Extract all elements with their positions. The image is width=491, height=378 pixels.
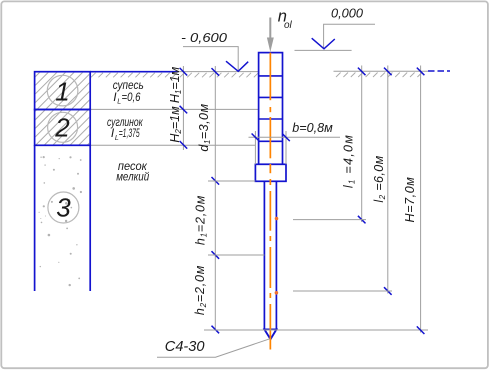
svg-text:С4-30: С4-30: [165, 338, 205, 355]
soil layer 1 hatching: [0, 58, 174, 150]
b dimension line: [249, 136, 341, 138]
datum -0,600 elbow: [183, 47, 238, 71]
circle label 3: [48, 192, 79, 223]
ground line blue dashes: [428, 70, 450, 72]
pile collar: [255, 164, 286, 181]
extension line h1/h2: [208, 254, 264, 256]
pile column segment lines: [259, 75, 283, 77]
b dimension extension lines: [254, 131, 256, 164]
b dimension ticks: [252, 134, 290, 142]
pile column: [259, 53, 283, 165]
layer boundary line 1: [90, 108, 258, 110]
ticks on H dim line: [180, 68, 188, 149]
extension line collar bottom: [208, 180, 255, 182]
pile centerline dash-dot: [269, 53, 271, 350]
ground line right of pile: [334, 70, 429, 72]
ground hatch marks right: [336, 73, 422, 78]
svg-text:0,000: 0,000: [331, 6, 364, 21]
svg-text:1: 1: [55, 77, 69, 107]
circle label 1: [47, 75, 78, 106]
dimension line d/h1/h2: [214, 66, 216, 331]
force arrow N: [269, 18, 271, 41]
svg-text:d1=3,0м: d1=3,0м: [197, 103, 212, 151]
svg-text:l2 =6,0м: l2 =6,0м: [372, 155, 387, 202]
dimension line l2: [387, 66, 389, 294]
svg-text:=1,375: =1,375: [119, 128, 140, 140]
soil layer 3 sand speckles: [39, 156, 83, 286]
dimension line l1: [361, 66, 363, 223]
datum 0,000 level line: [295, 49, 352, 51]
svg-text:H=7,0м: H=7,0м: [403, 177, 417, 223]
ticks on d/h dim line: [212, 68, 220, 333]
svg-text:мелкий: мелкий: [116, 170, 149, 184]
datum 0,000 arrow V: [312, 38, 335, 49]
soil layer 2 hatching: [0, 58, 174, 150]
dimension ticks right: [358, 68, 425, 334]
circle label 2: [48, 112, 78, 142]
layer boundary line 2: [90, 144, 255, 146]
svg-text:3: 3: [56, 192, 71, 222]
ground line blue segment: [90, 71, 178, 73]
soil layer 2 box: [35, 110, 91, 146]
datum 0,000 elbow: [324, 24, 375, 48]
pile shaft: [263, 181, 265, 329]
svg-text:h1=2,0м: h1=2,0м: [194, 195, 209, 245]
ground line gray segment to pile: [178, 71, 258, 73]
dimension line H total: [420, 66, 422, 333]
svg-text:ol: ol: [284, 20, 293, 31]
svg-text:H1=1м: H1=1м: [168, 66, 183, 103]
dimension line H1/H2: [182, 66, 184, 150]
orange point markers: [275, 217, 279, 221]
svg-text:H2=1м: H2=1м: [168, 106, 183, 143]
datum -0,600 arrow V: [226, 61, 248, 71]
svg-text:2: 2: [54, 112, 70, 142]
pile tip: [264, 329, 276, 339]
leader line C4-30: [157, 339, 270, 357]
svg-text:h2=2,0м: h2=2,0м: [193, 265, 208, 315]
extension line l2 bottom: [293, 290, 392, 292]
ground hatch marks left: [91, 73, 258, 78]
svg-text:- 0,600: - 0,600: [181, 30, 228, 45]
extension line pile tip level: [204, 329, 428, 331]
soil layer 1 box: [35, 72, 91, 110]
svg-text:супесь: супесь: [113, 80, 144, 92]
svg-text:=0,6: =0,6: [122, 92, 142, 104]
svg-text:b=0,8м: b=0,8м: [292, 120, 332, 135]
extension line l1 bottom: [293, 219, 366, 221]
soil layer 3 box sides: [34, 145, 36, 291]
svg-text:l1 =4,0м: l1 =4,0м: [342, 134, 357, 188]
